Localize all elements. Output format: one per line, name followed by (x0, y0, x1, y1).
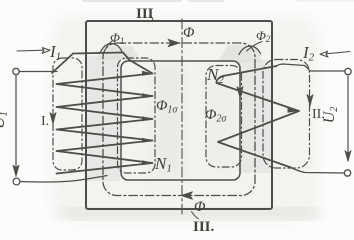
top edge scan marks (82, 0, 182, 2)
right limb shading (239, 60, 271, 173)
wire: winding II bottom to terminal (291, 168, 344, 174)
svg-text:Φ: Φ (194, 199, 206, 215)
winding N1 turn tips (142, 71, 153, 165)
voltage arrow U2 (347, 76, 349, 156)
wire: winding I bottom to terminal (20, 176, 107, 183)
core window (121, 61, 240, 180)
flux arrow on loop II right edge (307, 95, 313, 107)
leakage flux loop Φ1σ inner (in window) (118, 58, 156, 173)
main flux loop Φ (103, 43, 255, 196)
faint smudge over right window (205, 75, 239, 170)
leakage flux loop Φ2σ outer (right of winding II) (263, 60, 310, 169)
Φ1 leader tick (105, 41, 113, 52)
leader tick of top III label (151, 16, 154, 21)
top-left yoke shading (96, 46, 140, 60)
section line III-III (181, 19, 183, 215)
current arrow I2 (326, 52, 350, 54)
leakage flux loop Φ1σ outer (left of winding I) (53, 58, 82, 170)
Φ2 leader tick (247, 42, 263, 52)
svg-text:Φ: Φ (183, 25, 195, 41)
top-right yoke shading (218, 45, 262, 62)
winding N2 zigzag (216, 66, 299, 168)
terminal bottom-right (344, 170, 350, 176)
flux bump Φ1 over left limb (100, 44, 122, 54)
core outer boundary (86, 21, 272, 209)
left limb shading (87, 56, 120, 181)
leakage flux loop Φ2σ inner (in window) (206, 66, 242, 168)
leader tick of bottom III label (192, 212, 199, 220)
flux bump Φ2 over right limb (239, 46, 261, 55)
svg-text:III: III (136, 6, 154, 22)
terminal top-left (13, 68, 19, 74)
terminal bottom-left (13, 178, 20, 185)
flux arrow near N2 loop edge (237, 87, 243, 99)
wire: top-right terminal to winding II (277, 64, 346, 71)
svg-text:III.: III. (193, 219, 215, 234)
terminal top-right (345, 68, 351, 74)
svg-text:II.: II. (312, 107, 325, 122)
current arrow I1 (17, 49, 44, 52)
main flux bottom arrow (181, 192, 193, 199)
wire: top-left terminal to winding I (19, 71, 57, 73)
overall pencil wash over drawing area (52, 16, 318, 220)
voltage arrow U1 (15, 76, 17, 170)
window inner left gray band (152, 63, 184, 178)
winding N1 zigzag (52, 53, 153, 174)
main flux top arrow (168, 39, 180, 46)
svg-text:I.: I. (41, 114, 49, 129)
winding N2 turn tip (288, 108, 300, 113)
flux arrow on loop I left edge (50, 113, 56, 125)
bottom scan shadow (60, 209, 320, 218)
